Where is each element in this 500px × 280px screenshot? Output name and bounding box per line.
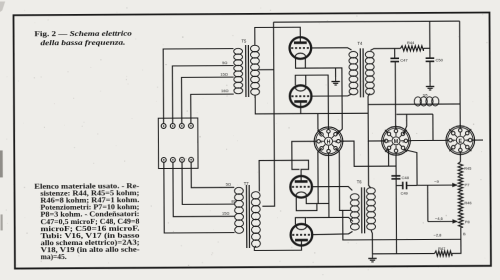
wire B+ right drop <box>459 21 462 126</box>
svg-text:8Ω: 8Ω <box>231 198 236 203</box>
capacitor C49 <box>402 182 404 190</box>
svg-text:3: 3 <box>467 139 469 143</box>
pot P8 <box>458 211 463 228</box>
svg-text:C48: C48 <box>402 175 410 180</box>
wire tap4 <box>191 94 234 123</box>
wire V18 grid to T4 <box>310 48 352 50</box>
choke S5 <box>414 97 421 106</box>
wire chain to node B <box>460 227 462 239</box>
wire E right pin <box>472 139 483 141</box>
wire C49 right to P7 <box>407 184 417 186</box>
svg-text:R45: R45 <box>464 166 471 171</box>
tube V17 <box>291 224 313 246</box>
wire E left riser <box>432 114 434 140</box>
wire C49 left <box>396 185 403 187</box>
svg-text:R44: R44 <box>407 40 415 45</box>
socket E <box>446 126 475 155</box>
wire V19 filament bus <box>295 75 328 128</box>
svg-text:E: E <box>459 139 463 145</box>
wire T5 centre tap <box>259 69 274 71</box>
wire ground bus <box>372 253 434 255</box>
wire H left pin loop <box>292 141 315 169</box>
arrow P8 wiper <box>428 220 457 222</box>
wire T6 primary top riser <box>368 141 371 188</box>
capacitor C48 <box>391 175 400 177</box>
wire tap1 <box>163 49 234 124</box>
transformer T6 core <box>361 187 363 233</box>
resistor R47 <box>434 251 452 256</box>
svg-text:R46: R46 <box>464 200 471 205</box>
wire C50 to ground <box>429 61 431 82</box>
wire btap1 <box>164 162 235 233</box>
svg-text:P8: P8 <box>465 219 470 224</box>
svg-text:B: B <box>463 231 466 236</box>
transformer T4 secondary winding <box>349 51 358 58</box>
wire B+ rail <box>274 21 460 22</box>
pot P7 <box>458 175 463 191</box>
ground bottom <box>371 254 373 258</box>
wire btap2 <box>173 162 235 217</box>
svg-text:15Ω: 15Ω <box>222 211 229 216</box>
wire R44 right riser <box>423 21 430 48</box>
terminal lugs <box>161 124 166 129</box>
wire btap3 <box>182 162 234 204</box>
svg-text:della bassa frequenza.: della bassa frequenza. <box>40 38 125 47</box>
transformer T4 primary winding <box>365 51 374 58</box>
wire C47 top <box>394 48 396 58</box>
wire T4 primary bottom drop <box>368 93 386 141</box>
wire M top-right pin riser <box>403 114 407 134</box>
transformer T5 secondary winding <box>234 48 243 54</box>
wire T7 primary top to V16 plate <box>259 160 309 191</box>
svg-text:C50: C50 <box>436 57 444 62</box>
wire V16 filament lead2 <box>306 198 317 204</box>
wire V19 plate to T5 bottom <box>255 95 368 114</box>
wire T4 primary top to R44 <box>370 48 400 50</box>
transformer T6 secondary winding <box>350 194 359 200</box>
resistor R45 <box>458 162 463 176</box>
ground filament centre <box>335 68 337 77</box>
svg-text:C47: C47 <box>400 58 408 63</box>
wire C50 drop <box>429 48 431 57</box>
svg-text:5Ω: 5Ω <box>226 182 231 187</box>
wire H bottom pin drop <box>328 155 330 217</box>
wire M bottom-left stub <box>388 149 390 166</box>
svg-text:16Ω: 16Ω <box>221 88 228 93</box>
tube V16 <box>290 176 312 198</box>
svg-text:H: H <box>327 140 331 146</box>
transformer T7 secondary winding <box>234 187 243 194</box>
capacitor C47 <box>390 57 399 59</box>
wire M bottom pin drop <box>395 155 398 254</box>
tube V19 <box>290 85 312 107</box>
ground under C50 <box>429 82 431 86</box>
wire H right pin to C48 <box>343 141 396 167</box>
svg-text:5Ω: 5Ω <box>222 60 227 65</box>
wire T6 primary bottom <box>371 230 372 254</box>
wire P8 riser <box>427 185 429 221</box>
wire M right to E left <box>410 139 446 141</box>
tube V18 <box>290 37 312 59</box>
wire V19 grid to T4 <box>310 94 352 96</box>
wire V19 filament lead2 <box>305 75 307 85</box>
wire filament to T6 tap <box>307 217 353 221</box>
wire top bus to sockets <box>396 113 432 115</box>
svg-text:T4: T4 <box>357 41 363 46</box>
svg-text:R47: R47 <box>438 246 445 251</box>
transformer T7 core <box>245 185 247 248</box>
svg-text:1: 1 <box>320 140 322 144</box>
wire E bottom pin <box>459 154 461 161</box>
svg-text:P7: P7 <box>465 182 470 187</box>
svg-text:M: M <box>394 139 399 145</box>
transformer T5 core <box>245 45 247 97</box>
capacitor C50 <box>426 57 435 59</box>
svg-text:3: 3 <box>335 140 337 144</box>
svg-text:−2,8: −2,8 <box>434 232 443 237</box>
resistor R44 <box>400 46 423 51</box>
svg-text:15Ω: 15Ω <box>220 72 227 77</box>
svg-text:−9: −9 <box>434 179 439 184</box>
wire V16 filament path <box>296 197 329 210</box>
wire H top-left pin riser <box>318 113 322 134</box>
wire tap2 <box>172 66 234 124</box>
socket M <box>382 126 411 155</box>
transformer T6 primary winding <box>366 188 375 194</box>
svg-text:1: 1 <box>452 139 454 143</box>
wire V17 grid to T6 <box>311 231 353 234</box>
transformer T4 core <box>359 48 361 97</box>
transformer T7 primary winding <box>251 192 260 199</box>
wire tap3 <box>182 77 234 123</box>
wire V18 filament lead2 <box>304 57 306 68</box>
wire B+ drop to T5/T7 taps <box>261 22 274 206</box>
svg-text:1: 1 <box>388 140 390 144</box>
terminal block <box>158 118 198 169</box>
arrow P7 wiper <box>417 184 457 186</box>
svg-text:ma)=45.: ma)=45. <box>41 253 67 261</box>
wire M bottom-right to P7 wiper <box>404 150 417 186</box>
wire choke line <box>368 103 460 106</box>
wire V17 plate to T7 bottom <box>254 243 301 250</box>
wire T5 top to V18 plate <box>255 27 301 45</box>
wire V18 filament bus <box>296 57 343 135</box>
wire V17 filament lead2 <box>304 218 306 225</box>
resistor R46 <box>458 191 463 211</box>
svg-text:−4,6: −4,6 <box>435 216 444 221</box>
wire H bottom-right pin drop <box>335 148 342 210</box>
wire R47 to node B <box>452 239 461 253</box>
wire V16 grid to T6 <box>311 187 353 191</box>
wire T6 centre tap bias <box>343 210 461 240</box>
svg-text:C49: C49 <box>400 190 408 195</box>
wire C47 drop to socket M <box>394 62 396 128</box>
svg-text:T5: T5 <box>241 39 247 44</box>
svg-text:3: 3 <box>402 140 404 144</box>
wire V17 filament bus <box>295 218 306 225</box>
wire H bottom-left pin drop <box>318 148 322 203</box>
socket H <box>314 127 343 156</box>
transformer T5 primary winding <box>250 45 259 52</box>
wire btap4 <box>191 162 234 188</box>
svg-text:T6: T6 <box>357 179 363 184</box>
